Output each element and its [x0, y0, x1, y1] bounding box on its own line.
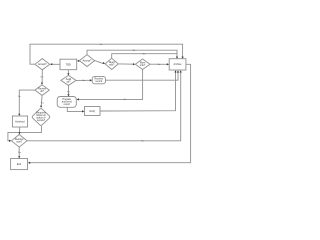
- svg-text:now?: now?: [16, 141, 22, 144]
- svg-text:ok?: ok?: [40, 90, 45, 93]
- arrowhead into D1 right from W5: [50, 63, 52, 65]
- svg-text:Accept?: Accept?: [83, 59, 92, 62]
- arrowhead into D7 top from W18: [40, 106, 42, 108]
- svg-text:End: End: [17, 163, 22, 166]
- svg-text:review?: review?: [37, 119, 46, 122]
- svg-text:Verify: Verify: [89, 110, 96, 113]
- process R6: [12, 116, 27, 127]
- decision D8: [11, 135, 27, 148]
- wire W18 diamond D5 bottom into diamond D7 top: [40, 95, 43, 106]
- arrowhead into D6 top from W9: [67, 73, 69, 75]
- svg-text:edit?: edit?: [109, 64, 115, 67]
- wire W15 rect R7 right up into rect R5 bottom: [100, 72, 176, 111]
- wire W23 rect R5 right down into rect R8 right: [30, 64, 190, 162]
- svg-text:Yes: Yes: [82, 80, 85, 82]
- decision D4: [135, 59, 150, 70]
- arrowhead into R8 top from W22: [18, 156, 20, 158]
- wire W5 rect R1 left into diamond D1: [52, 63, 60, 65]
- decision D6: [61, 75, 76, 85]
- wire W14 rounded RR3 bottom into rect R7 left: [67, 107, 82, 111]
- arrowhead into R5 left from W8: [167, 63, 169, 65]
- wire W2 diamond D2 top to rect R5 top: [87, 50, 177, 57]
- arrowhead into RR3 top from W12: [67, 94, 69, 96]
- arrowhead into RR3 right from W13: [77, 98, 79, 100]
- svg-text:Accept?: Accept?: [38, 63, 47, 66]
- decision D3: [105, 58, 118, 69]
- wire W11 rounded RR2 right up into rect R5 bottom: [106, 72, 179, 80]
- svg-text:report: report: [64, 103, 71, 106]
- wire W8 diamond D4 right into rect R5 left: [150, 63, 167, 65]
- arrowhead into D4 left from W7: [133, 63, 135, 65]
- decision D2: [79, 55, 94, 67]
- wire W1 diamond D1 to rect R5 top (long top loop): [30, 44, 183, 64]
- wire W17 diamond D5 left down into rect R6 top: [19, 90, 35, 114]
- wire W4 diamond D2 left into rect R1: [78, 60, 81, 62]
- arrowhead into D8 top from W20: [18, 132, 20, 134]
- svg-text:TBD: TBD: [66, 63, 71, 66]
- svg-text:info?: info?: [140, 64, 146, 67]
- arrowhead into R5 bottom from W11: [177, 70, 179, 72]
- arrowhead into R6 top from W17: [18, 114, 20, 116]
- wire W13 diamond D4 bottom into rounded RR3 right: [79, 70, 143, 100]
- terminator RR2: [92, 76, 105, 83]
- arrowhead into R8 right from W23: [28, 162, 30, 164]
- svg-text:Yes: Yes: [41, 102, 44, 104]
- arrowhead into D3 left from W6: [103, 62, 106, 64]
- svg-text:record: record: [95, 80, 102, 83]
- process R8 end: [11, 159, 28, 170]
- decision D5: [35, 85, 49, 96]
- arrowhead into R5 bottom from W15: [174, 70, 176, 72]
- wire W16 diamond D1 bottom into diamond D5 top: [41, 70, 43, 83]
- svg-text:Archived: Archived: [15, 120, 25, 123]
- svg-text:Archive: Archive: [174, 63, 183, 66]
- wire W12 diamond D6 bottom into rounded RR3 top: [68, 85, 70, 94]
- terminator RR3: [57, 97, 76, 108]
- wire W9 rect R1 bottom into diamond D6 top: [67, 70, 69, 74]
- wire W21 diamond D8 right up into rect R5 bottom: [27, 72, 181, 140]
- svg-text:Yes: Yes: [18, 152, 21, 154]
- arrowhead into RR2 left from W10: [90, 79, 92, 81]
- decision D1: [35, 59, 50, 70]
- arrowhead into R5 top from W1: [182, 57, 184, 59]
- wire W22 diamond D8 bottom into rect R8 top: [18, 147, 20, 156]
- svg-text:Yes: Yes: [40, 77, 43, 79]
- svg-text:Yes: Yes: [67, 92, 70, 94]
- process R1: [60, 59, 77, 69]
- arrowhead into R7 left from W14: [82, 110, 84, 112]
- svg-text:No: No: [18, 96, 21, 98]
- wire W6 diamond D2 right into diamond D3 left: [95, 61, 104, 64]
- decision D7: [32, 109, 50, 126]
- wire W10 diamond D6 right into rounded RR2 left: [76, 79, 90, 81]
- wire W19 diamond D7 bottom loop into diamond D8 left: [8, 126, 42, 141]
- process R7: [85, 107, 101, 116]
- wire W20 rect R6 bottom into diamond D8 top: [19, 127, 21, 132]
- arrowhead into D8 left from W19: [9, 140, 11, 142]
- wire W3 diamond D3 top joining W2 drop: [112, 54, 177, 59]
- arrowhead into D5 top from W16: [41, 83, 43, 85]
- arrowhead into R1 right from W4: [77, 60, 79, 62]
- arrowhead into R5 top from W2: [176, 57, 178, 59]
- process R5: [169, 59, 186, 70]
- arrowhead into R5 bottom from W21: [180, 70, 182, 72]
- wire W7 diamond D3 right into diamond D4 left: [118, 63, 133, 65]
- svg-text:ok?: ok?: [67, 80, 72, 83]
